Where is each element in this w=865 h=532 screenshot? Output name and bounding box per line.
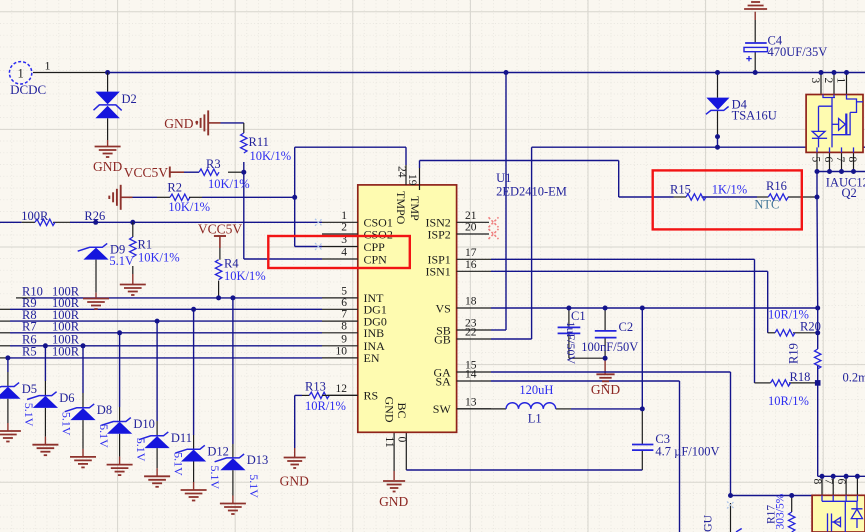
resistor R19 — [815, 349, 821, 369]
svg-text:RS: RS — [364, 389, 379, 403]
ground stub D8 — [82, 449, 84, 457]
wire D8 tap — [82, 346, 84, 393]
svg-text:100R: 100R — [52, 345, 80, 359]
svg-text:9: 9 — [341, 333, 347, 345]
svg-text:R13: R13 — [305, 380, 326, 394]
diode D10 (zener 5.1V) — [101, 418, 132, 434]
no-connect X pin 20 — [489, 229, 499, 239]
svg-text:Q2: Q2 — [842, 186, 857, 200]
junction D4/GB wire — [715, 145, 720, 150]
pin 1 CSO1 — [322, 221, 358, 223]
wire D13 tap — [232, 298, 234, 444]
wire D5 tap — [7, 358, 9, 372]
no-ERC mark pin1 — [315, 219, 322, 226]
svg-text:SW: SW — [433, 402, 452, 416]
diode D6 (zener 5.1V) — [27, 392, 58, 408]
svg-text:7: 7 — [834, 157, 846, 163]
svg-text:10K/1%: 10K/1% — [208, 177, 250, 191]
junction VS/R19 — [815, 306, 820, 311]
svg-text:20: 20 — [465, 222, 477, 234]
svg-text:D10: D10 — [133, 417, 155, 431]
Q3 top pin 6 — [845, 476, 847, 495]
junction VS vertical — [640, 306, 645, 311]
ground below D9 — [83, 299, 109, 310]
wire SA row — [491, 380, 680, 382]
wire GA down — [730, 372, 732, 496]
junction Q3 pin7 — [831, 474, 836, 479]
Q2 top pin 2 — [833, 73, 835, 95]
svg-text:SA: SA — [435, 374, 451, 388]
ground stub D6 — [44, 437, 46, 445]
capacitor C2 100nF/50V — [595, 331, 617, 338]
diode D2 (bidirectional TVS) — [94, 92, 122, 119]
lead below GA node — [730, 503, 732, 532]
pin 2 CSO2 — [322, 233, 358, 235]
diode D9 (zener) — [78, 243, 109, 259]
svg-text:10R/1%: 10R/1% — [305, 399, 346, 413]
Q2 bottom pin 7 — [841, 152, 843, 171]
svg-text:120uH: 120uH — [519, 383, 553, 397]
junction Q3 pin8 — [820, 474, 825, 479]
ground below D13 — [220, 504, 246, 515]
svg-text:0: 0 — [396, 437, 408, 443]
svg-text:TSA16U: TSA16U — [732, 108, 777, 122]
pin 17 ISP1 — [457, 258, 491, 260]
pin 13 SW — [457, 408, 491, 410]
junction R17 — [789, 493, 794, 498]
svg-text:R19: R19 — [787, 343, 801, 364]
resistor R18 — [771, 380, 791, 386]
wire EN row — [10, 357, 322, 359]
wire VCC5V to R3 — [184, 171, 199, 173]
diode D13 (zener 5.1V) — [215, 454, 246, 470]
resistor R1 — [130, 237, 136, 257]
wire DG1 row — [10, 308, 322, 310]
wire VS to SW vertical — [641, 308, 643, 409]
wire VS row — [491, 307, 818, 309]
pin 21 ISN2 — [457, 221, 489, 223]
svg-text:21: 21 — [465, 210, 477, 222]
wire D6 tap — [44, 346, 46, 381]
wire INT row — [30, 297, 322, 299]
D10 cathode lead — [119, 434, 121, 457]
junction D8 — [81, 343, 86, 348]
svg-text:GND: GND — [379, 494, 408, 509]
wire TMPO vertical — [405, 147, 407, 165]
svg-text:0.2m: 0.2m — [843, 370, 865, 384]
wire to pin 4 CPN — [244, 258, 322, 260]
resistor R15 — [686, 194, 706, 200]
wire SA down to edge — [679, 381, 681, 532]
resistor R3 — [199, 169, 219, 175]
svg-text:17: 17 — [465, 247, 477, 259]
ground stub D9 — [95, 293, 97, 299]
svg-text:2ED2410-EM: 2ED2410-EM — [496, 185, 567, 199]
R15 left lead — [674, 196, 687, 198]
ground below R13 — [284, 458, 306, 469]
Q2 top pin 1 — [846, 73, 848, 95]
R16 left lead — [757, 196, 768, 198]
R2 left lead — [157, 196, 170, 198]
wire ISN1 down to R20 — [767, 271, 769, 333]
junction D10 — [117, 330, 122, 335]
svg-text:CPN: CPN — [364, 252, 388, 266]
svg-text:C2: C2 — [619, 320, 634, 334]
svg-text:470UF/35V: 470UF/35V — [768, 45, 828, 59]
red highlight box R15/R16 — [653, 170, 802, 229]
svg-text:5.1V: 5.1V — [171, 452, 185, 476]
junction C1/VS — [566, 306, 571, 311]
Q3 top pin 8 — [821, 476, 823, 495]
R13 left lead — [302, 394, 309, 396]
svg-text:R26: R26 — [84, 209, 105, 223]
wire L1 to C3 node — [571, 408, 642, 410]
pin 22 GB — [457, 338, 491, 340]
Q2 top pin 3 — [820, 73, 822, 95]
svg-text:22: 22 — [465, 327, 477, 339]
svg-text:R18: R18 — [790, 370, 811, 384]
D9 bottom lead — [95, 260, 97, 293]
D2 bottom lead — [107, 118, 109, 140]
svg-text:12: 12 — [336, 383, 348, 395]
wire sense net down — [817, 383, 819, 476]
capacitor C1 1uF/50V — [558, 327, 581, 333]
C3 bottom lead — [641, 450, 643, 470]
VCC5V stub 2 — [219, 236, 221, 248]
svg-text:TMPO: TMPO — [394, 191, 408, 225]
diode D11 (zener 5.1V) — [139, 432, 170, 448]
svg-text:GND: GND — [164, 116, 193, 131]
svg-text:10R/1%: 10R/1% — [768, 394, 809, 408]
wire DG1 row stub — [0, 308, 10, 310]
svg-text:R16: R16 — [766, 179, 787, 193]
junction Q2 pin8 — [851, 169, 856, 174]
C2 top lead — [604, 308, 606, 331]
svg-text:1: 1 — [17, 66, 23, 80]
svg-text:100R: 100R — [52, 320, 80, 334]
junction C4/rail — [753, 70, 758, 75]
svg-text:D11: D11 — [171, 431, 192, 445]
C2 bottom lead — [604, 338, 606, 359]
ground stub R2 — [121, 196, 133, 198]
svg-text:R11: R11 — [249, 135, 269, 149]
ground below R1 — [120, 285, 146, 296]
svg-text:BC: BC — [395, 403, 409, 419]
ground stub C2 — [604, 358, 606, 373]
svg-text:1: 1 — [835, 78, 847, 84]
op-amp U1 2ED2410-EM (gate driver IC) — [358, 185, 457, 432]
junction R1 — [130, 220, 135, 225]
resistor R2 — [170, 194, 190, 200]
L1 right lead — [556, 408, 571, 410]
svg-text:1uF/50V: 1uF/50V — [564, 322, 578, 365]
junction R4 — [216, 295, 221, 300]
ground below C2 — [596, 374, 614, 385]
wire Q2 bottom pins — [817, 171, 865, 173]
R17 top lead — [791, 496, 793, 513]
junction D11 — [155, 319, 160, 324]
resistor R20 — [775, 330, 795, 336]
pin 10 EN — [322, 357, 358, 359]
wire INA row stub — [0, 345, 10, 347]
R4 top lead — [219, 248, 221, 260]
svg-text:D6: D6 — [59, 391, 74, 405]
pin 15 GA — [457, 371, 491, 373]
svg-text:5.1V: 5.1V — [109, 254, 134, 268]
diode D8 (zener 5.1V) — [65, 404, 96, 420]
wire SB net vertical — [505, 73, 507, 331]
C1 top lead — [568, 308, 570, 327]
wire to R15 — [619, 196, 674, 198]
wire to pin 23 SB — [491, 329, 506, 331]
ground stub D10 — [119, 457, 121, 465]
svg-text:3: 3 — [809, 78, 821, 84]
resistor R11 — [241, 133, 247, 153]
pin 24 TMPO stub — [405, 165, 407, 185]
junction D13 — [230, 295, 235, 300]
svg-text:10K/1%: 10K/1% — [168, 200, 210, 214]
svg-text:10K/1%: 10K/1% — [138, 251, 180, 265]
D12 cathode lead — [193, 462, 195, 483]
svg-text:6: 6 — [822, 157, 834, 163]
resistor R4 — [215, 260, 221, 280]
wire R13 row — [295, 394, 302, 396]
D11 cathode lead — [156, 448, 158, 468]
svg-text:5: 5 — [810, 157, 822, 163]
D11 anode lead — [156, 421, 158, 436]
svg-text:8: 8 — [341, 320, 347, 332]
junction GA/Q3 — [728, 493, 733, 498]
wire Q2 pin5 down — [816, 172, 818, 198]
ground below D10 — [107, 465, 133, 476]
pin 18 VS — [457, 307, 491, 309]
pin 16 ISN1 — [457, 270, 491, 272]
wire INB row — [10, 332, 322, 334]
pin 19 TMP stub — [419, 168, 421, 190]
wire R13 to ground — [294, 395, 296, 448]
svg-text:R2: R2 — [167, 181, 182, 195]
ground stub C4 — [754, 12, 756, 20]
junction C2/VS — [603, 306, 608, 311]
R16 right lead — [788, 196, 817, 198]
no-connect X pin 21 — [489, 217, 499, 227]
no-ERC mark GA node — [727, 502, 734, 509]
junction D6 — [43, 343, 48, 348]
svg-text:R5: R5 — [22, 345, 37, 359]
svg-text:EN: EN — [364, 351, 380, 365]
wire TMP down — [618, 161, 620, 198]
Q2 internal symbol — [812, 95, 863, 153]
R2 right lead — [189, 196, 202, 198]
Q2 bottom pin 8 — [853, 152, 855, 171]
wire D11 tap — [156, 321, 158, 421]
pin 3 CPP — [322, 246, 358, 248]
svg-text:1: 1 — [341, 210, 347, 222]
svg-text:8: 8 — [811, 479, 823, 485]
capacitor C3 4.7uF/100V — [632, 445, 653, 451]
D8 anode lead — [82, 393, 84, 408]
svg-text:R7: R7 — [22, 320, 37, 334]
D5 cathode lead — [7, 399, 9, 423]
wire R19 top — [817, 308, 819, 349]
wire R26 to pin 1 CSO1 — [70, 221, 322, 223]
R18 right lead — [789, 382, 818, 384]
pin 8 INB — [322, 332, 358, 334]
wire GA row — [491, 371, 731, 373]
junction Q2 pin1 — [844, 70, 849, 75]
pin 14 SA — [457, 380, 491, 382]
pin 12 RS — [322, 394, 358, 396]
diode D12 (zener 5.1V) — [175, 445, 206, 461]
junction Q2 pin7 — [839, 169, 844, 174]
D13 anode lead — [232, 444, 234, 458]
ground stub D13 — [232, 496, 234, 504]
ground stub R13 — [294, 448, 296, 457]
junction Q2 pin3 — [819, 70, 824, 75]
svg-text:L1: L1 — [528, 412, 542, 426]
ground stub D2 — [107, 140, 109, 147]
junction D4 lower — [715, 134, 720, 139]
D2 top lead — [107, 73, 109, 92]
svg-text:2: 2 — [822, 78, 834, 84]
svg-text:DCDC: DCDC — [10, 82, 46, 97]
svg-text:14: 14 — [465, 369, 477, 381]
wire TMP net horizontal — [420, 160, 619, 162]
R13 to pin 12 RS — [327, 394, 357, 396]
wire C1 to C2 bottom — [569, 357, 605, 359]
svg-text:GND: GND — [93, 159, 122, 174]
junction R20 — [815, 330, 820, 335]
R26 right lead — [53, 221, 70, 223]
diode D5 (zener 5.1V) — [0, 383, 21, 399]
wire DG0 row — [10, 320, 322, 322]
wire R2 to CPP node — [202, 196, 295, 198]
D5 anode lead — [7, 372, 9, 387]
svg-text:U1: U1 — [496, 171, 511, 185]
D6 anode lead — [44, 381, 46, 396]
junction SB/rail — [504, 70, 509, 75]
svg-text:R1: R1 — [138, 238, 153, 252]
wire R26 row left — [0, 221, 22, 223]
resistor R13 — [309, 392, 329, 398]
svg-text:8: 8 — [846, 157, 858, 163]
C1 bottom lead — [568, 333, 570, 358]
wire R11/R3 node down — [243, 162, 245, 259]
svg-text:D13: D13 — [247, 453, 269, 467]
D10 anode lead — [119, 407, 121, 422]
D6 cathode lead — [44, 408, 46, 437]
wire DG0 row stub — [0, 320, 10, 322]
VCC5V stub — [170, 171, 184, 173]
ground port R2 — [109, 185, 120, 210]
svg-text:INB: INB — [364, 326, 385, 340]
wire R15 to R16 — [702, 196, 758, 198]
wire INA row — [10, 345, 322, 347]
ground port upper — [197, 110, 208, 135]
inductor L1 coil — [506, 403, 556, 409]
wire TMPO net horizontal — [295, 146, 406, 148]
R26 left lead — [22, 221, 35, 223]
pin 6 DG1 — [322, 308, 358, 310]
junction R16/NTC node — [815, 195, 820, 200]
svg-text:1K/1%: 1K/1% — [712, 183, 747, 197]
wire SW to L1 — [457, 408, 507, 410]
D8 cathode lead — [82, 420, 84, 449]
svg-text:VCC5V: VCC5V — [124, 165, 169, 180]
junction D12 — [191, 307, 196, 312]
svg-text:1: 1 — [45, 59, 51, 73]
R20 left lead — [768, 332, 775, 334]
ground below D11 — [144, 476, 170, 487]
wire D10 tap — [119, 333, 121, 407]
wire EN row stub — [0, 357, 10, 359]
svg-text:100nF/50V: 100nF/50V — [581, 340, 638, 354]
pin 5 INT — [322, 297, 358, 299]
svg-text:6: 6 — [835, 479, 847, 485]
wire top supply rail — [108, 72, 865, 74]
stray diode tail bottom edge — [736, 529, 742, 532]
ground below D12 — [181, 490, 207, 501]
junction R11/R3 — [241, 170, 246, 175]
junction D2/rail — [105, 70, 110, 75]
svg-text:ISN1: ISN1 — [425, 265, 450, 279]
svg-text:R20: R20 — [800, 320, 821, 334]
svg-text:4: 4 — [341, 247, 347, 259]
svg-text:18: 18 — [465, 296, 477, 308]
wire INT row stub — [16, 297, 30, 299]
pin 0 BC lead down — [405, 432, 407, 470]
wire GA to Q3 — [731, 495, 813, 497]
junction Q2 pin5 — [815, 169, 820, 174]
Q3 top pin 7 — [832, 476, 834, 495]
transistor Q2 IAUC12 (dual MOSFET) — [806, 95, 863, 153]
wire R19 bottom — [817, 366, 819, 383]
ground below D5 — [0, 431, 21, 442]
svg-text:5.1V: 5.1V — [22, 403, 36, 427]
ground stub D11 — [156, 468, 158, 476]
junction Q3 pin6 — [844, 474, 849, 479]
svg-text:VS: VS — [435, 301, 450, 315]
Q2 bottom pin 5 — [816, 152, 818, 171]
svg-text:5.1V: 5.1V — [60, 412, 74, 436]
ground below D2 — [95, 147, 121, 158]
svg-text:303/5%: 303/5% — [775, 493, 787, 529]
ground stub R1 — [132, 274, 134, 285]
wire GB net vertical — [531, 147, 533, 339]
wire to pin 22 GB — [491, 338, 532, 340]
D4 top lead — [717, 73, 719, 98]
resistor R17 — [789, 512, 795, 532]
wire to pin 3 CPP — [295, 246, 322, 248]
svg-text:6: 6 — [341, 297, 347, 309]
junction R2/CPP — [292, 195, 297, 200]
svg-text:GND: GND — [280, 474, 309, 489]
svg-text:5: 5 — [341, 285, 347, 297]
D12 anode lead — [193, 435, 195, 450]
svg-text:GU: GU — [701, 514, 715, 532]
svg-text:5.1V: 5.1V — [247, 474, 261, 498]
ground below D6 — [32, 445, 58, 456]
svg-text:GB: GB — [434, 332, 451, 346]
R20 right lead — [793, 332, 818, 334]
svg-text:5.1V: 5.1V — [208, 466, 222, 490]
wire ISN1 row — [491, 270, 768, 272]
wire R3 to node — [228, 171, 244, 173]
svg-text:NTC: NTC — [754, 198, 779, 212]
wire R11 top lead — [243, 123, 245, 133]
ground stub D12 — [193, 482, 195, 490]
C4 bottom lead — [754, 52, 756, 73]
